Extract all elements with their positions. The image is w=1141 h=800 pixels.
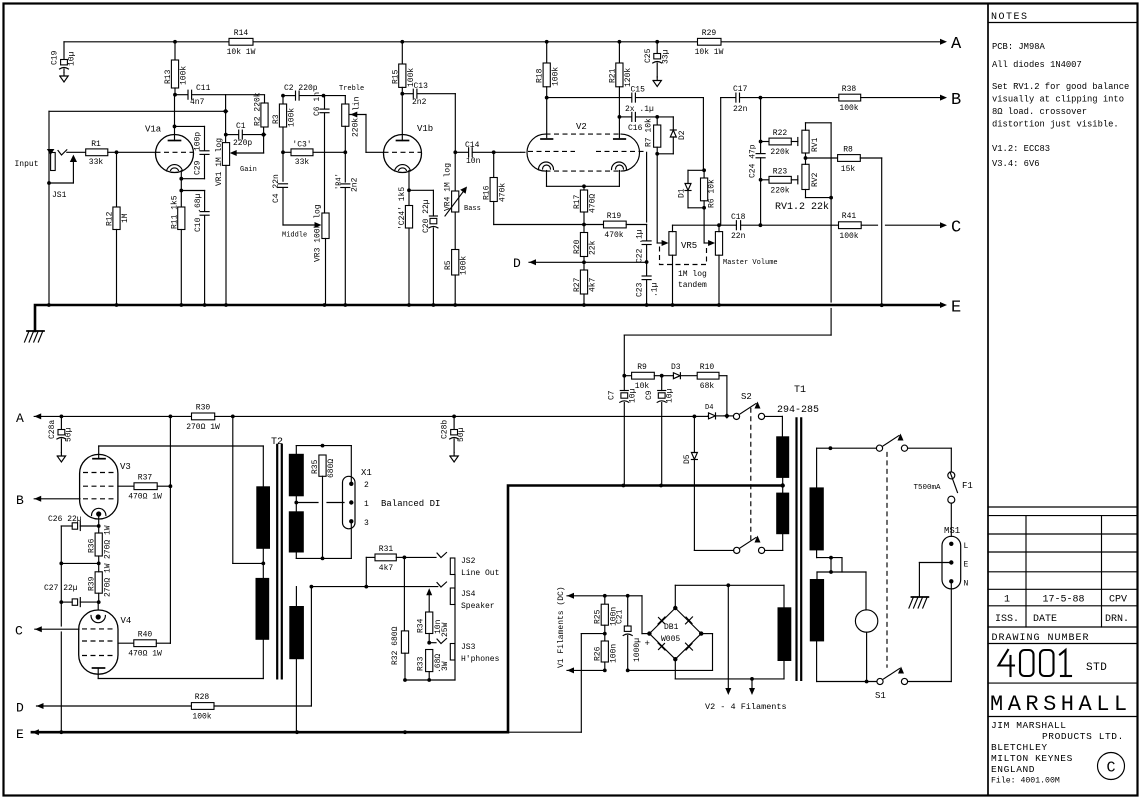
- svg-text:DRAWING NUMBER: DRAWING NUMBER: [992, 633, 1090, 644]
- switch S2 upper: [724, 392, 765, 420]
- svg-text:470k: 470k: [604, 231, 623, 240]
- svg-text:22n: 22n: [733, 105, 748, 114]
- resistor R18: [536, 42, 561, 87]
- svg-text:470Ω 1W: 470Ω 1W: [128, 493, 162, 502]
- node C (arrow right): [940, 219, 961, 238]
- T1 filament winding: [778, 585, 792, 679]
- svg-text:VR1 1M log: VR1 1M log: [215, 138, 224, 186]
- jack JS2 Line Out: [404, 553, 499, 579]
- capacitor C28b: [441, 416, 467, 452]
- svg-text:8Ω load. crossover: 8Ω load. crossover: [992, 107, 1087, 117]
- svg-text:N: N: [964, 580, 969, 589]
- svg-text:C10 .68µ: C10 .68µ: [194, 193, 203, 232]
- svg-text:D3: D3: [671, 363, 681, 372]
- resistor R27: [573, 262, 598, 304]
- svg-text:C21: C21: [616, 609, 625, 624]
- svg-text:R17: R17: [573, 194, 582, 209]
- resistor R41: [760, 212, 940, 241]
- svg-text:10k 1W: 10k 1W: [695, 48, 724, 57]
- svg-text:'C24' 1k5: 'C24' 1k5: [398, 187, 407, 230]
- svg-text:2n2: 2n2: [412, 98, 427, 107]
- label Balanced DI: [381, 499, 440, 509]
- wire RV loop down: [830, 198, 832, 336]
- svg-text:10k 1W: 10k 1W: [227, 48, 256, 57]
- resistor R36: [88, 525, 113, 565]
- svg-text:C9: C9: [645, 390, 654, 400]
- svg-text:2x .1µ: 2x .1µ: [625, 105, 654, 114]
- svg-text:lin: lin: [353, 96, 362, 111]
- diode D2: [657, 117, 687, 154]
- triode V1a: [145, 125, 194, 173]
- V2 left anode: [541, 87, 553, 139]
- svg-text:V1.2: ECC83: V1.2: ECC83: [992, 144, 1050, 154]
- svg-text:R2 220k: R2 220k: [254, 92, 263, 126]
- svg-text:ENGLAND: ENGLAND: [991, 764, 1035, 775]
- V2 grid dashes: [528, 150, 647, 152]
- svg-text:R25: R25: [594, 609, 603, 624]
- svg-text:Set RV1.2 for good balance: Set RV1.2 for good balance: [992, 82, 1129, 92]
- wire V2 cathodes join: [547, 184, 620, 188]
- potentiometer VR5 left: [669, 225, 676, 304]
- wire bias feed: [622, 335, 831, 378]
- resistor C3 33k: [283, 141, 345, 168]
- svg-text:H'phones: H'phones: [461, 655, 500, 664]
- svg-text:PRODUCTS LTD.: PRODUCTS LTD.: [1042, 731, 1124, 742]
- resistor R38: [760, 85, 940, 113]
- svg-text:V1 Filaments (DC): V1 Filaments (DC): [557, 586, 566, 668]
- wire V1b cathode: [407, 171, 411, 206]
- svg-text:R12: R12: [106, 211, 115, 226]
- wire VR3 bottom: [0, 0, 1, 1]
- svg-text:E: E: [964, 561, 969, 570]
- svg-text:R6 10k: R6 10k: [708, 179, 717, 208]
- svg-text:R21: R21: [608, 68, 617, 83]
- svg-text:220k: 220k: [770, 148, 789, 157]
- resistor R10: [697, 363, 727, 391]
- wire V1b anode: [400, 87, 404, 140]
- svg-text:S1: S1: [875, 691, 886, 701]
- svg-text:B: B: [951, 91, 961, 110]
- svg-text:R36: R36: [88, 538, 97, 553]
- wire X1 pin1: [296, 502, 344, 504]
- wire R10 down: [726, 376, 728, 416]
- svg-text:C4 22n: C4 22n: [272, 174, 281, 203]
- trimmer RV1: [802, 123, 820, 160]
- transformer T2 label: [271, 437, 283, 448]
- node E (arrow, bottom): [16, 727, 39, 742]
- T1 HT winding: [810, 446, 833, 550]
- svg-text:R38: R38: [842, 85, 857, 94]
- trimmer RV2: [802, 158, 820, 198]
- svg-text:100k: 100k: [288, 108, 297, 127]
- switch S1 upper: [876, 434, 907, 452]
- wire E to filament ct: [508, 634, 582, 733]
- capacitor C10: [181, 191, 209, 305]
- svg-text:1000µ: 1000µ: [633, 638, 642, 662]
- resistor R12: [106, 152, 131, 304]
- svg-text:R20: R20: [573, 239, 582, 254]
- label Gain pot: [0, 0, 1, 1]
- svg-text:680Ω: 680Ω: [327, 459, 336, 478]
- arrow V1 fil lower: [567, 667, 607, 673]
- svg-text:R14: R14: [234, 29, 249, 38]
- wiper VR2: [350, 112, 384, 153]
- T2 sec top rail: [296, 444, 351, 484]
- node A (top right arrow): [940, 35, 962, 54]
- svg-text:1: 1: [364, 500, 369, 509]
- svg-text:R15: R15: [391, 69, 400, 84]
- svg-text:68k: 68k: [700, 382, 715, 391]
- svg-text:NOTES: NOTES: [991, 12, 1029, 23]
- NOTES box: [988, 12, 1137, 23]
- switch S1 lower: [875, 667, 908, 702]
- wire DB1 AC top: [675, 583, 784, 608]
- svg-text:S2: S2: [741, 392, 752, 402]
- svg-text:220p: 220p: [233, 139, 252, 148]
- resistor R28: [191, 587, 311, 722]
- diode D3: [662, 363, 698, 379]
- tetrode V3: [80, 454, 131, 519]
- svg-text:C28b: C28b: [441, 420, 450, 439]
- svg-text:22k: 22k: [589, 240, 598, 255]
- capacitor C26: [48, 515, 99, 531]
- svg-text:C11: C11: [196, 84, 211, 93]
- svg-text:470Ω 1W: 470Ω 1W: [128, 650, 162, 659]
- label V2-4 Filaments: [705, 702, 787, 712]
- svg-text:C1: C1: [236, 122, 246, 131]
- diode D5: [683, 416, 697, 550]
- wire R11 to bus: [180, 230, 182, 305]
- svg-text:File: 4001.00M: File: 4001.00M: [991, 776, 1060, 786]
- resistor R29: [695, 29, 724, 57]
- svg-text:ISS.: ISS.: [995, 614, 1019, 625]
- logo MARSHALL: [988, 692, 1137, 717]
- svg-text:VR4 1M log: VR4 1M log: [444, 163, 453, 211]
- ground at C25: [653, 77, 661, 87]
- svg-text:R23: R23: [773, 168, 788, 177]
- svg-text:Input: Input: [15, 160, 39, 169]
- wire DB1 AC bottom: [675, 659, 784, 681]
- arrow V1 fil upper: [567, 593, 607, 599]
- svg-text:Balanced DI: Balanced DI: [381, 499, 440, 509]
- T2 secondary winding mid: [289, 503, 304, 559]
- address block: [991, 720, 1124, 786]
- T1 bottom rail: [817, 681, 877, 683]
- svg-text:1: 1: [1004, 595, 1010, 606]
- node D (arrow, bottom): [16, 701, 44, 716]
- svg-text:R7 10k: R7 10k: [645, 118, 654, 147]
- resistor R39: [88, 563, 113, 604]
- svg-text:Gain: Gain: [240, 166, 257, 174]
- label RV1.2 22k: [775, 201, 829, 213]
- svg-text:100n: 100n: [609, 644, 618, 663]
- svg-text:R13: R13: [164, 69, 173, 84]
- svg-text:33µ: 33µ: [662, 49, 671, 64]
- T2 secondary winding upper: [289, 446, 304, 505]
- svg-text:4k7: 4k7: [589, 277, 598, 292]
- wire A rail right: [454, 415, 708, 419]
- svg-text:V2: V2: [576, 122, 587, 132]
- svg-text:270Ω 1W: 270Ω 1W: [104, 563, 113, 597]
- wire V4 anode: [98, 668, 263, 679]
- ground bus: [35, 303, 940, 331]
- notes text: [992, 42, 1129, 169]
- svg-text:V4: V4: [121, 616, 132, 626]
- svg-text:DATE: DATE: [1033, 614, 1057, 625]
- wire C17 drop: [720, 98, 722, 226]
- svg-text:1M log: 1M log: [678, 270, 707, 279]
- connector X1: [343, 468, 372, 529]
- wire D rail: [37, 705, 192, 707]
- svg-text:100k: 100k: [839, 232, 858, 241]
- svg-text:JS4: JS4: [461, 590, 476, 599]
- wire C17-R38 node drop: [759, 98, 763, 153]
- svg-text:2n2: 2n2: [351, 177, 360, 192]
- svg-text:visually at clipping into: visually at clipping into: [992, 95, 1124, 105]
- svg-text:270Ω 1W: 270Ω 1W: [186, 423, 220, 432]
- svg-text:PCB: JM98A: PCB: JM98A: [992, 42, 1046, 52]
- svg-text:RV1: RV1: [811, 137, 820, 152]
- capacitor C22: [636, 152, 652, 264]
- svg-text:10µ: 10µ: [666, 388, 675, 403]
- capacitor C11: [173, 84, 211, 107]
- capacitor R4 2n2: [335, 173, 359, 304]
- speaker rail: [310, 585, 438, 589]
- capacitor C27: [44, 584, 99, 607]
- svg-text:MILTON KEYNES: MILTON KEYNES: [991, 753, 1073, 764]
- wire R25/R26 tap: [581, 633, 605, 635]
- svg-text:D2: D2: [678, 130, 687, 140]
- capacitor C23: [636, 262, 660, 305]
- svg-text:100k: 100k: [460, 256, 469, 275]
- svg-text:C: C: [951, 219, 961, 238]
- label VR5: [681, 241, 697, 251]
- svg-text:.1µ: .1µ: [651, 282, 660, 297]
- resistor R17: [573, 186, 598, 232]
- diode D1: [678, 170, 705, 208]
- svg-text:C16: C16: [628, 124, 643, 133]
- svg-text:BLETCHLEY: BLETCHLEY: [991, 742, 1048, 753]
- capacitor C1: [226, 122, 264, 148]
- svg-text:3: 3: [364, 519, 369, 528]
- svg-text:JS2: JS2: [461, 557, 476, 566]
- svg-text:distortion just visible.: distortion just visible.: [992, 120, 1119, 130]
- capacitor C17: [721, 85, 763, 114]
- svg-text:R30: R30: [196, 404, 211, 413]
- V2 left cathode: [539, 162, 554, 186]
- arrow filament feed 1: [725, 585, 731, 695]
- S1 mech link: [886, 452, 888, 668]
- jack JS3 Hphones: [429, 639, 499, 665]
- svg-text:4k7: 4k7: [379, 564, 394, 573]
- svg-text:R3: R3: [272, 114, 281, 124]
- ground at C28b: [450, 453, 458, 463]
- svg-text:V3: V3: [120, 462, 131, 472]
- svg-text:E: E: [16, 727, 24, 742]
- diode D4: [705, 404, 730, 419]
- svg-text:R28: R28: [195, 693, 210, 702]
- svg-text:R27: R27: [573, 277, 582, 292]
- wire C26 left drop: [59, 526, 98, 565]
- svg-text:MARSHALL: MARSHALL: [990, 692, 1132, 717]
- wire C11 to R2/VR1: [192, 95, 265, 112]
- svg-text:100k: 100k: [192, 713, 211, 722]
- svg-text:Line Out: Line Out: [461, 569, 499, 578]
- capacitor C19: [51, 42, 77, 73]
- svg-text:DB1: DB1: [664, 623, 679, 632]
- svg-text:+: +: [645, 639, 650, 649]
- svg-text:2: 2: [364, 481, 369, 490]
- svg-text:C18: C18: [731, 213, 746, 222]
- title table: [988, 516, 1137, 644]
- svg-text:50µ: 50µ: [457, 427, 466, 442]
- resistor R23: [761, 168, 798, 196]
- capacitor C14: [455, 141, 495, 166]
- svg-text:B: B: [16, 493, 24, 508]
- resistor R3: [272, 94, 297, 155]
- wire C14 to V2 grid: [494, 151, 528, 153]
- potentiometer VR5 right: [715, 225, 722, 304]
- wire R30 to T2 tap: [233, 416, 263, 563]
- svg-text:R19: R19: [607, 212, 622, 221]
- label Master Volume: [723, 259, 778, 267]
- svg-text:VR5: VR5: [681, 241, 697, 251]
- jack JS4 Speaker: [437, 582, 495, 611]
- svg-text:V1b: V1b: [417, 124, 433, 134]
- copyright symbol: [1098, 753, 1125, 780]
- svg-text:C13: C13: [414, 82, 429, 91]
- svg-text:3W: 3W: [441, 661, 450, 671]
- svg-text:RV2: RV2: [811, 172, 820, 187]
- svg-text:Bass: Bass: [464, 205, 481, 213]
- T2 secondary winding lower: [289, 587, 304, 733]
- wire S1 to mains N: [908, 581, 952, 681]
- svg-text:JIM MARSHALL: JIM MARSHALL: [991, 720, 1067, 731]
- svg-text:V2 - 4 Filaments: V2 - 4 Filaments: [705, 702, 787, 712]
- resistor R32: [391, 557, 409, 681]
- drawing number 4001 STD: [999, 650, 1108, 676]
- svg-text:R31: R31: [379, 545, 394, 554]
- resistor R2: [254, 92, 269, 127]
- T1 winding joint: [817, 550, 866, 573]
- svg-text:T1: T1: [794, 385, 806, 396]
- svg-text:Treble: Treble: [339, 85, 364, 93]
- svg-text:RV1.2 22k: RV1.2 22k: [775, 201, 829, 213]
- capacitor C16: [619, 112, 659, 133]
- svg-text:470Ω: 470Ω: [589, 194, 598, 213]
- capacitor C9: [645, 376, 675, 486]
- svg-text:R18: R18: [536, 68, 545, 83]
- resistor R1: [67, 140, 156, 167]
- svg-text:C29: C29: [194, 160, 203, 175]
- T2 primary winding upper: [256, 446, 270, 565]
- svg-text:R16: R16: [483, 185, 492, 200]
- svg-text:D1: D1: [678, 188, 687, 198]
- svg-text:C14: C14: [465, 141, 480, 150]
- svg-text:STD: STD: [1086, 662, 1107, 674]
- svg-text:10µ: 10µ: [68, 51, 77, 66]
- svg-text:4n7: 4n7: [190, 98, 205, 107]
- pentode envelope V2: [527, 122, 640, 171]
- wire HT rail top: [64, 40, 940, 44]
- resistor R7: [645, 117, 661, 156]
- resistor C24p 1k5: [398, 187, 413, 305]
- wire C15 down to D1: [702, 98, 706, 173]
- svg-text:R10: R10: [700, 363, 715, 372]
- svg-text:R34: R34: [417, 618, 426, 633]
- wire R7 to VR5L wiper: [656, 154, 658, 243]
- svg-text:C: C: [1106, 760, 1115, 777]
- notes box bottom: [988, 506, 1137, 508]
- svg-text:220k: 220k: [770, 187, 789, 196]
- capacitor C24: [749, 144, 766, 225]
- svg-text:F1: F1: [962, 481, 973, 491]
- transformer T1 label: [777, 385, 819, 416]
- resistor R8: [806, 146, 882, 175]
- resistor R40: [118, 631, 170, 659]
- wiper VR1: [230, 150, 264, 174]
- svg-text:Master Volume: Master Volume: [723, 259, 778, 267]
- svg-text:VR3 100k log: VR3 100k log: [313, 204, 322, 262]
- svg-text:C15: C15: [631, 86, 646, 95]
- capacitor C18: [731, 213, 762, 241]
- svg-text:100k: 100k: [180, 66, 189, 85]
- svg-text:294-285: 294-285: [777, 405, 819, 416]
- svg-text:CPV: CPV: [1109, 595, 1127, 606]
- node E (arrow right): [940, 299, 961, 318]
- svg-text:22n: 22n: [731, 232, 746, 241]
- svg-text:D4: D4: [705, 404, 713, 412]
- capacitor C2: [283, 84, 325, 100]
- potentiometer VR3 Middle: [282, 113, 329, 304]
- svg-text:R8: R8: [843, 146, 853, 155]
- fuse F1: [914, 472, 973, 536]
- title row headers: [995, 614, 1129, 625]
- resistor R35: [311, 455, 336, 560]
- resistor R20: [573, 233, 598, 265]
- wire VR2 bottom: [343, 126, 347, 182]
- svg-text:C23: C23: [636, 282, 645, 297]
- wire A rail: [34, 415, 191, 419]
- wire C27 left drop: [59, 563, 63, 734]
- svg-text:R37: R37: [138, 474, 153, 483]
- label 1M log tandem: [678, 270, 707, 290]
- svg-text:17-5-88: 17-5-88: [1042, 595, 1084, 606]
- T1 primary winding lower: [776, 486, 789, 551]
- svg-text:'R4': 'R4': [335, 173, 343, 190]
- svg-text:C25: C25: [644, 48, 653, 63]
- svg-text:R26: R26: [594, 646, 603, 661]
- svg-text:33k: 33k: [89, 158, 104, 167]
- svg-text:50µ: 50µ: [65, 427, 74, 442]
- node D (arrow left): [513, 256, 647, 271]
- resistor R14: [227, 29, 256, 57]
- wire MS1 earth: [919, 563, 951, 598]
- svg-text:C7: C7: [608, 390, 617, 400]
- V2 right anode: [614, 87, 626, 139]
- svg-text:R5: R5: [444, 260, 453, 270]
- capacitor C21: [605, 594, 642, 672]
- resistor R25: [594, 596, 619, 636]
- label V1 Filaments DC: [557, 586, 566, 668]
- svg-text:470k: 470k: [498, 183, 507, 202]
- svg-text:270Ω 1W: 270Ω 1W: [104, 525, 113, 559]
- wire E rail bottom: [32, 730, 508, 734]
- node junction grid bus: [223, 109, 229, 115]
- wire C13 down: [453, 94, 457, 155]
- svg-text:C28a: C28a: [48, 420, 57, 439]
- capacitor C6: [313, 92, 329, 116]
